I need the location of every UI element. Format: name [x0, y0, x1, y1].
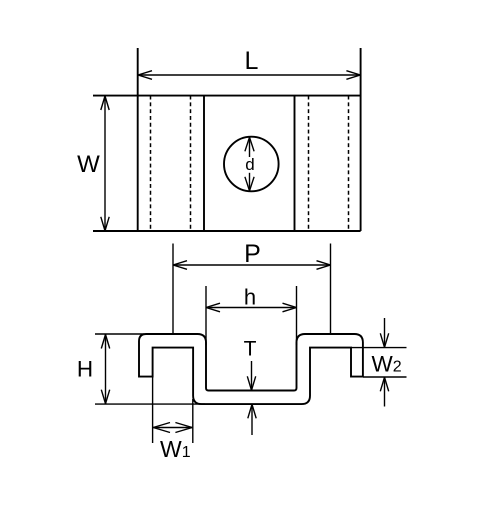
svg-text:H: H	[77, 357, 93, 382]
dimension W2 (lip depth)	[351, 318, 407, 407]
dimension d (hole diameter, vertical arrows inside circle)	[245, 137, 254, 191]
dimension T (material thickness)	[247, 361, 256, 435]
dimension h (channel inner width)	[206, 286, 297, 345]
plan view hidden edge (dashed, far right)	[348, 96, 350, 231]
svg-text:W2: W2	[372, 352, 402, 377]
svg-text:W: W	[77, 151, 100, 178]
plan view hidden edge (dashed, left)	[190, 96, 192, 231]
svg-text:W1: W1	[160, 436, 191, 462]
plan view bend line (left, solid)	[203, 96, 205, 231]
cross-section profile outline (hat channel)	[139, 334, 363, 404]
dimension L (top width)	[138, 71, 360, 80]
dimension H (section height)	[95, 334, 205, 404]
svg-text:L: L	[245, 47, 259, 75]
dimension W1 (foot groove width)	[153, 377, 193, 443]
plan view hidden edge (dashed, far left)	[150, 96, 152, 231]
svg-text:d: d	[245, 155, 254, 174]
plan view hidden edge (dashed, right)	[308, 96, 310, 231]
dimension W (plan height)	[101, 96, 109, 231]
plan view bend line (right, solid)	[294, 96, 296, 231]
dimension P (flange pitch)	[173, 244, 331, 334]
svg-text:P: P	[244, 240, 261, 268]
svg-text:T: T	[244, 338, 257, 361]
svg-text:h: h	[244, 285, 256, 310]
hole circle	[224, 137, 279, 192]
plan view outer rectangle with L/W extension lines	[93, 48, 361, 231]
